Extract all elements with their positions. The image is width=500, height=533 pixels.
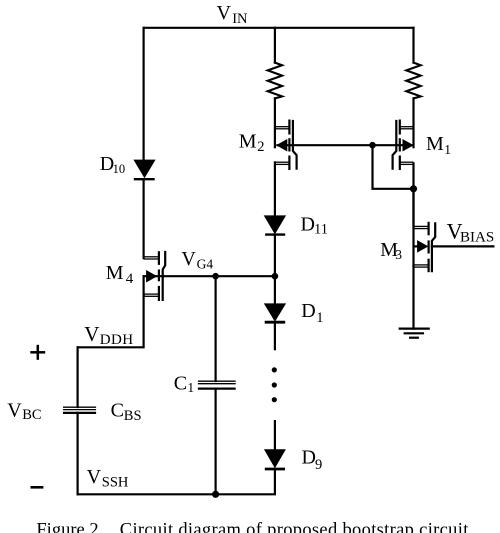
svg-text:IN: IN	[232, 11, 248, 27]
resistor (M2 load)	[268, 63, 282, 99]
diode D9	[265, 450, 285, 469]
wire VDDH down to CBS	[76, 347, 78, 407]
wire CBS bottom to VSSH	[76, 413, 78, 494]
wire M1 drain branch from rail to resistor	[412, 28, 414, 63]
svg-text:BS: BS	[124, 408, 142, 424]
svg-text:1: 1	[444, 142, 451, 157]
svg-text:SSH: SSH	[102, 474, 129, 490]
svg-text:M: M	[239, 131, 257, 153]
wire M2 drain branch from rail to resistor	[274, 28, 276, 63]
diode D11	[265, 216, 286, 235]
wire D11 cathode down to VG4 node	[274, 235, 276, 276]
plus sign of VBC	[30, 345, 45, 360]
transistor M2	[275, 120, 297, 171]
wire D9 cathode to VSSH corner	[78, 469, 275, 494]
wire M4 source down to VDDH corner	[78, 295, 144, 347]
diode D1	[265, 304, 286, 322]
svg-text:1: 1	[187, 380, 194, 395]
wire D1 cathode stub	[274, 323, 276, 349]
wire M3 source down to ground	[412, 266, 414, 329]
wire resistor to M2 drain	[274, 98, 276, 147]
diode D10	[134, 160, 155, 179]
svg-text:D: D	[301, 214, 315, 236]
wire gate rail M2 to M1	[277, 144, 413, 146]
transistor M4	[144, 251, 166, 301]
wire VIN top rail	[144, 27, 414, 29]
svg-text:V: V	[84, 322, 99, 346]
svg-text:11: 11	[314, 222, 328, 238]
svg-text:M: M	[426, 133, 444, 155]
svg-text:4: 4	[126, 271, 134, 287]
wire M3 column drain body source	[412, 189, 414, 266]
junction node VG4 at diode column	[272, 273, 279, 280]
svg-text:10: 10	[113, 162, 126, 176]
svg-text:9: 9	[315, 457, 322, 473]
junction node VG4 at C1	[212, 273, 219, 280]
wire left branch VIN down to D10	[143, 28, 145, 161]
svg-text:M: M	[106, 262, 124, 284]
wire VG4 node down to C1	[215, 276, 217, 381]
wire M1 source down to M3 drain	[412, 163, 414, 226]
svg-text:D: D	[302, 447, 316, 469]
wire resistor to M1 drain	[412, 98, 414, 147]
capacitor C1	[198, 381, 236, 388]
svg-text:V: V	[7, 399, 22, 421]
transistor M1	[393, 120, 414, 171]
svg-text:G4: G4	[197, 257, 214, 272]
wire D10 cathode down to M4 drain	[143, 180, 145, 259]
svg-text:2: 2	[257, 139, 264, 155]
wire VG4 node down to D1	[274, 276, 276, 304]
wire to D9 anode	[274, 421, 276, 450]
junction node M1 gate	[369, 142, 376, 149]
svg-text:V: V	[87, 466, 102, 488]
svg-text:BC: BC	[22, 407, 41, 423]
svg-text:1: 1	[316, 310, 323, 326]
ground	[399, 329, 430, 338]
junction node M1 source	[410, 185, 417, 192]
svg-text:V: V	[181, 248, 196, 270]
ellipsis dots between D1 and D9	[272, 367, 277, 402]
svg-text:Figure 2.: Figure 2.	[36, 520, 103, 533]
wire M4 body leg down to source	[143, 276, 145, 295]
svg-text:DDH: DDH	[100, 332, 134, 348]
svg-text:C: C	[111, 399, 124, 421]
svg-text:V: V	[217, 2, 232, 24]
junction node VSSH at C1	[212, 491, 219, 498]
wire M2 source down to D11	[274, 162, 276, 216]
svg-text:3: 3	[395, 247, 402, 262]
resistor (M1 load)	[406, 63, 420, 99]
wire M1 gate node down	[373, 145, 414, 189]
wire M3 VBIAS gate lead	[432, 245, 494, 247]
wire VG4 rail from M4 to diode column	[144, 275, 275, 277]
minus sign of VBC	[31, 486, 44, 489]
svg-text:D: D	[301, 300, 315, 322]
transistor M3	[414, 222, 436, 272]
svg-text:Circuit diagram of proposed bo: Circuit diagram of proposed bootstrap ci…	[120, 520, 469, 533]
capacitor CBS	[63, 407, 96, 413]
svg-text:BIAS: BIAS	[460, 229, 494, 245]
svg-text:C: C	[174, 373, 187, 395]
wire C1 bottom to VSSH	[215, 389, 217, 495]
